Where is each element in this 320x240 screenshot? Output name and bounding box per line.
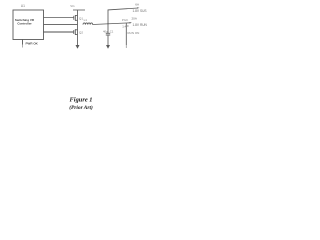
wire output cap branch [107, 24, 109, 45]
wire gate drive to Q1 [44, 17, 74, 19]
wire RUN ON branch down [126, 23, 139, 48]
U1 reference designator [21, 4, 25, 8]
net 1.8V_SUS labels [133, 3, 147, 14]
wire Vin to ground vertical [77, 10, 79, 45]
svg-text:6A: 6A [135, 3, 139, 7]
value label near RUN junction [122, 24, 129, 28]
svg-text:1.4: 1.4 [122, 24, 126, 28]
svg-text:Controller: Controller [17, 21, 32, 25]
svg-text:PGK: PGK [122, 18, 128, 22]
node Vin rail [70, 4, 85, 10]
controller U1 box [13, 10, 44, 40]
svg-text:Vin: Vin [70, 4, 75, 8]
ground under Q2 [76, 45, 80, 49]
svg-text:Figure 1: Figure 1 [70, 96, 93, 103]
svg-text:20A: 20A [132, 17, 137, 21]
svg-text:PWR OK: PWR OK [26, 42, 39, 46]
capacitor C1 [103, 29, 114, 35]
wire inductor to RUN arrow [93, 22, 132, 25]
net 1.8V_RUN labels [122, 17, 148, 27]
node junction at output [107, 23, 108, 24]
svg-text:U1: U1 [21, 4, 25, 8]
wire gate drive to Q2 [44, 31, 74, 33]
svg-text:1.8V SUS: 1.8V SUS [133, 9, 147, 13]
svg-text:L1: L1 [84, 18, 88, 22]
svg-text:C1: C1 [110, 29, 114, 33]
caption (Prior Art) [69, 104, 93, 111]
net PWR OK stub [23, 40, 39, 48]
transistor Q2 [74, 29, 84, 35]
svg-text:40u: 40u [103, 30, 108, 34]
svg-text:RUN ON: RUN ON [128, 31, 140, 35]
wire switch-node sense [44, 24, 78, 26]
caption Figure 1 [70, 96, 93, 103]
svg-text:Q2: Q2 [79, 31, 83, 35]
transistor Q1 [74, 15, 84, 21]
svg-text:(Prior Art): (Prior Art) [69, 104, 93, 111]
wire branch up to SUS arrow [108, 7, 139, 24]
svg-text:1.8V RUN: 1.8V RUN [133, 23, 148, 27]
ground under C1 [106, 45, 110, 49]
inductor L1 [83, 18, 93, 24]
svg-text:F: F [127, 24, 129, 28]
